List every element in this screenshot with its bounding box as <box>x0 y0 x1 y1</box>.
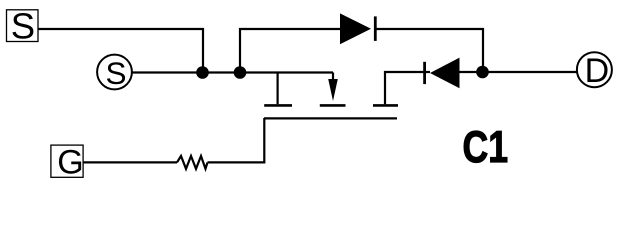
svg-text:G: G <box>57 144 83 182</box>
svg-text:S: S <box>106 55 127 91</box>
svg-text:C1: C1 <box>463 122 508 172</box>
svg-text:S: S <box>11 6 35 47</box>
svg-text:D: D <box>585 52 610 90</box>
